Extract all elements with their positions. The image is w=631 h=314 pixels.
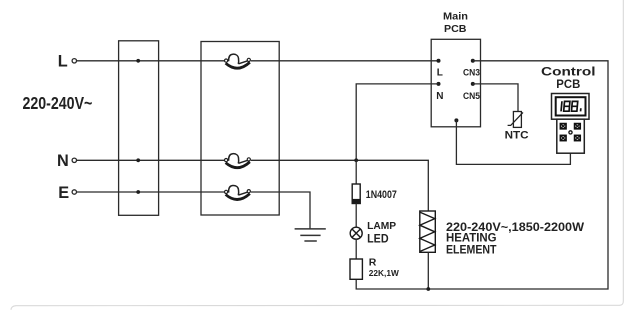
thermal switch on E line [225,185,251,199]
svg-text:L: L [58,52,68,70]
node N terminal circle [72,158,76,162]
wire CN5 to NTC [473,84,518,112]
terminal block box 1 [119,41,159,216]
svg-text:Main: Main [443,10,468,22]
svg-text:CN5: CN5 [463,91,481,102]
wire N switch to heating element corner [251,160,428,211]
node junction dot N in box1 [136,158,140,162]
svg-text:PCB: PCB [556,77,580,91]
wire CN3 to right bus [356,61,608,289]
pin N of Main PCB [437,82,441,86]
svg-text:PCB: PCB [444,23,467,35]
diode D1 1N4007 [352,184,360,204]
pin CN3 of Main PCB [471,59,475,63]
wire L switch to Main PCB L pin [251,60,439,62]
wire L terminal to switch [77,60,224,62]
button 4 [575,135,581,140]
node junction dot E in box1 [136,190,140,194]
svg-text:E: E [58,184,69,202]
wire N pin to N line junction [356,84,438,160]
pin CN5 of Main PCB [471,82,475,86]
svg-text:LED: LED [367,233,389,245]
button 1 [560,124,566,129]
svg-text:L: L [437,68,443,79]
Control PCB body (display head) [552,94,590,120]
wire diode to lamp [355,204,357,228]
wire heating element bottom [427,252,429,289]
wire dropper top (N pin vertical continues below junction) [355,160,357,184]
svg-text:220-240V~: 220-240V~ [23,94,93,113]
wire Main PCB bottom pin to Control PCB [456,120,570,164]
LCD digits 188 [561,101,581,111]
heating element [420,211,436,252]
node junction dot heating/bottom bus [426,287,430,291]
pin bottom of Main PCB [454,118,458,122]
Main PCB box U1 [431,39,480,127]
button 3 [560,135,566,140]
wire E terminal to switch [77,191,224,193]
svg-text:CN3: CN3 [463,68,480,79]
svg-text:ELEMENT: ELEMENT [446,243,497,257]
button 2 [575,124,581,129]
Control PCB LCD window [556,97,586,115]
node junction dot L in box1 [136,59,140,63]
svg-text:1N4007: 1N4007 [366,189,397,201]
svg-text:R: R [369,256,377,268]
lamp LED symbol [350,227,362,239]
svg-text:NTC: NTC [505,129,529,141]
svg-text:N: N [57,152,69,170]
Control PCB body (keypad stem) [557,119,585,153]
node junction dot N line / dropper [354,158,358,162]
svg-text:LAMP: LAMP [367,220,396,232]
thermal cutout box 2 [201,42,279,216]
button center dot [569,131,572,134]
wire N terminal to switch [77,159,224,161]
thermal switch on L line [225,54,251,68]
node L terminal circle [72,59,76,63]
resistor R 22K,1W [350,259,362,279]
wire lamp to resistor [355,239,357,259]
thermistor NTC [508,112,523,128]
ground symbol [295,229,326,241]
thermal switch on N line [225,154,251,168]
wire E switch to ground [251,192,310,229]
node E terminal circle [72,190,76,194]
svg-text:22K,1W: 22K,1W [369,268,400,278]
svg-text:N: N [436,91,443,102]
pin L of Main PCB [437,59,441,63]
